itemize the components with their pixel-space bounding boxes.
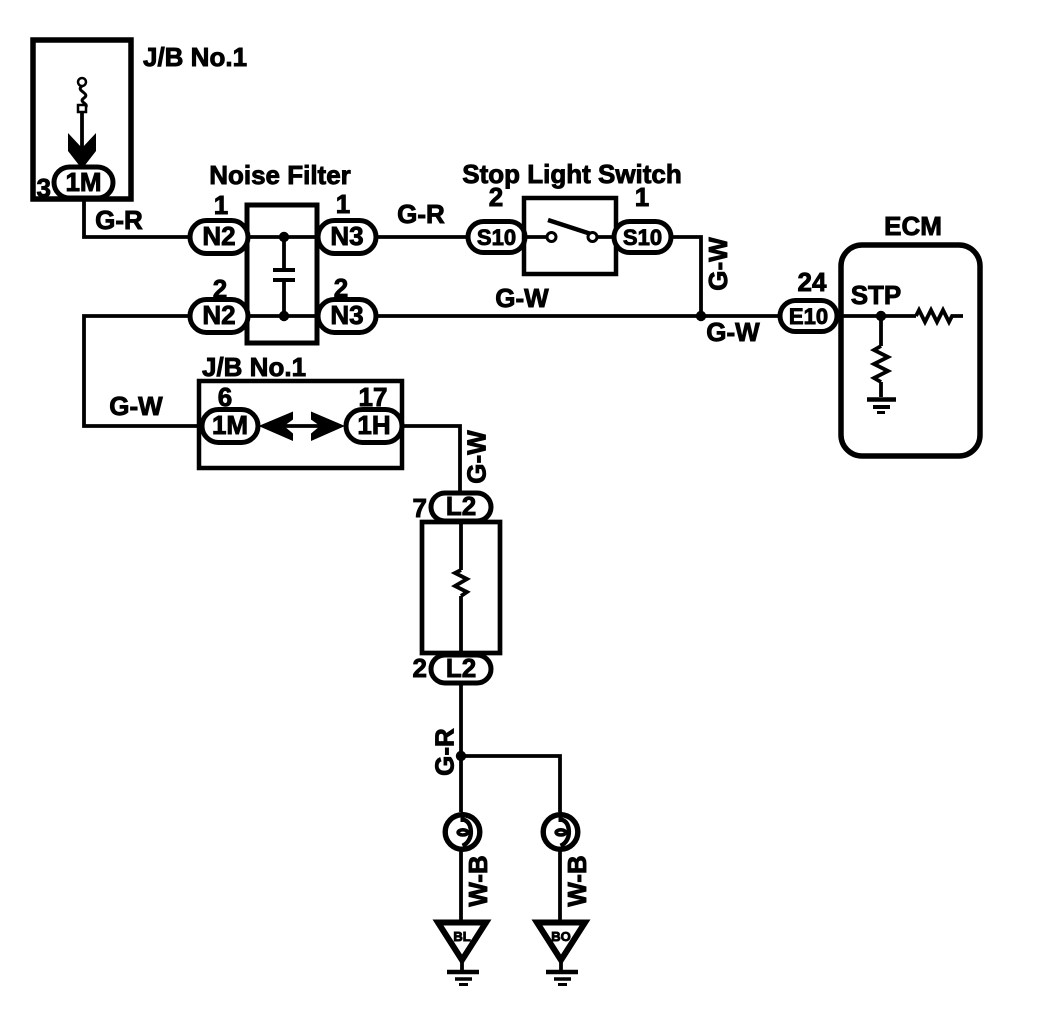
svg-text:N3: N3 (330, 221, 363, 251)
connector oval S10 pin 1 (614, 222, 671, 253)
ground BL (447, 970, 479, 975)
ground triangle BO (537, 923, 585, 961)
svg-text:7: 7 (413, 493, 427, 523)
wire from E10 into ECM (837, 314, 916, 318)
ground triangle BL (438, 923, 486, 961)
wire from node down to resistor (879, 316, 883, 346)
svg-text:24: 24 (798, 267, 827, 297)
wire branch right and down to right bulb (461, 756, 560, 812)
svg-text:G-W: G-W (703, 237, 733, 291)
connector oval N2 pin 1 (190, 221, 248, 254)
svg-text:N3: N3 (330, 300, 363, 330)
ground BO (546, 970, 578, 975)
switch blade (548, 220, 591, 234)
svg-text:L2: L2 (446, 491, 476, 521)
wire through L2 box (459, 521, 463, 570)
junction dot (456, 751, 466, 761)
stop light switch box (524, 198, 616, 274)
svg-text:Noise Filter: Noise Filter (209, 160, 351, 190)
bulb left (stop light) (445, 812, 480, 849)
connector oval 1M pin 3 (top) (54, 167, 113, 198)
svg-text:S10: S10 (477, 225, 516, 250)
svg-text:STP: STP (851, 280, 902, 310)
svg-text:1M: 1M (212, 410, 248, 440)
svg-text:2: 2 (489, 182, 503, 212)
wire below right bulb (558, 850, 562, 921)
wire between arrows (280, 424, 322, 428)
capacitor in noise filter (282, 237, 286, 268)
connector oval 1M pin 6 (202, 410, 258, 443)
svg-text:E10: E10 (789, 304, 828, 329)
svg-text:S10: S10 (623, 225, 662, 250)
wire from resistor to ground (879, 382, 883, 397)
wire from S10 pin1 right and down to junction (671, 237, 701, 316)
svg-text:3: 3 (37, 173, 51, 203)
connector oval S10 pin 2 (468, 222, 525, 253)
wire N3 pin1 to S10 pin2 (376, 235, 468, 239)
svg-text:J/B No.1: J/B No.1 (143, 42, 247, 72)
resistor horizontal in ECM (916, 310, 963, 322)
connector oval E10 pin 24 (780, 301, 837, 332)
svg-text:G-R: G-R (430, 728, 460, 776)
svg-text:J/B No.1: J/B No.1 (202, 352, 306, 382)
connector oval 1H pin 17 (346, 410, 402, 443)
switch left contact (547, 233, 556, 242)
wire from square to arrow (80, 112, 84, 150)
svg-text:G-R: G-R (95, 205, 143, 235)
connector oval N3 pin 2 (318, 300, 376, 333)
svg-text:1H: 1H (357, 410, 390, 440)
junction dot at capacitor bottom (279, 311, 289, 321)
svg-text:1M: 1M (65, 167, 101, 197)
ground in ECM (867, 397, 896, 402)
svg-text:N2: N2 (202, 300, 235, 330)
junction dot at STP node (876, 311, 886, 321)
svg-text:G-W: G-W (462, 430, 492, 484)
svg-text:W-B: W-B (463, 855, 493, 906)
wire from N2 pin2 left, down, right to 1M (84, 316, 202, 426)
wire below left bulb (459, 850, 463, 921)
svg-text:L2: L2 (446, 653, 476, 683)
svg-text:1: 1 (214, 190, 228, 220)
wire row 1 through noise filter (247, 235, 317, 239)
ECM box (841, 245, 980, 456)
wire from 1M down and right to N2 pin 1 (84, 198, 190, 237)
junction dot on long wire (696, 311, 706, 321)
bulb right (stop light) (543, 812, 578, 849)
rear lights failure sensor box L2 (422, 522, 500, 653)
svg-text:2: 2 (413, 653, 427, 683)
svg-text:G-R: G-R (397, 199, 445, 229)
switch right contact (588, 233, 597, 242)
svg-text:G-W: G-W (706, 317, 760, 347)
arrow left in J/B (259, 412, 294, 442)
wire below triangle (460, 960, 464, 970)
junction block J/B No.1 box (second) (199, 381, 402, 468)
svg-text:ECM: ECM (884, 211, 942, 241)
fusible link square terminal (78, 105, 86, 112)
switch right lead wire (597, 235, 616, 239)
fusible link circle terminal (78, 78, 86, 86)
wire below resistor (459, 596, 463, 655)
resistor vertical in ECM (874, 346, 888, 382)
connector oval L2 pin 2 (431, 655, 491, 683)
wire from 1H right and down to L2 (402, 426, 460, 493)
connector oval L2 pin 7 (431, 493, 491, 521)
svg-text:G-W: G-W (495, 283, 549, 313)
svg-text:W-B: W-B (562, 855, 592, 906)
svg-text:1: 1 (336, 189, 350, 219)
junction block J/B No.1 box (top left) (33, 40, 131, 199)
noise filter box (247, 205, 317, 343)
wire row 2 through noise filter (247, 314, 317, 318)
svg-text:1: 1 (635, 182, 649, 212)
connector oval N3 pin 1 (318, 221, 376, 254)
resistor in L2 box (455, 570, 467, 596)
svg-text:BL: BL (453, 929, 470, 944)
arrow right in J/B (311, 412, 345, 442)
wire from L2 down to junction (459, 683, 463, 812)
svg-text:N2: N2 (202, 221, 235, 251)
connector oval N2 pin 2 (190, 300, 248, 333)
fusible link arrow (68, 133, 96, 169)
wire below triangle (559, 960, 563, 970)
long wire N3 pin2 to E10 (376, 314, 780, 318)
switch left lead wire (524, 235, 547, 239)
junction dot at capacitor top (279, 232, 289, 242)
svg-text:G-W: G-W (109, 391, 163, 421)
svg-text:BO: BO (551, 929, 571, 944)
fusible link squiggle wire (80, 86, 86, 107)
